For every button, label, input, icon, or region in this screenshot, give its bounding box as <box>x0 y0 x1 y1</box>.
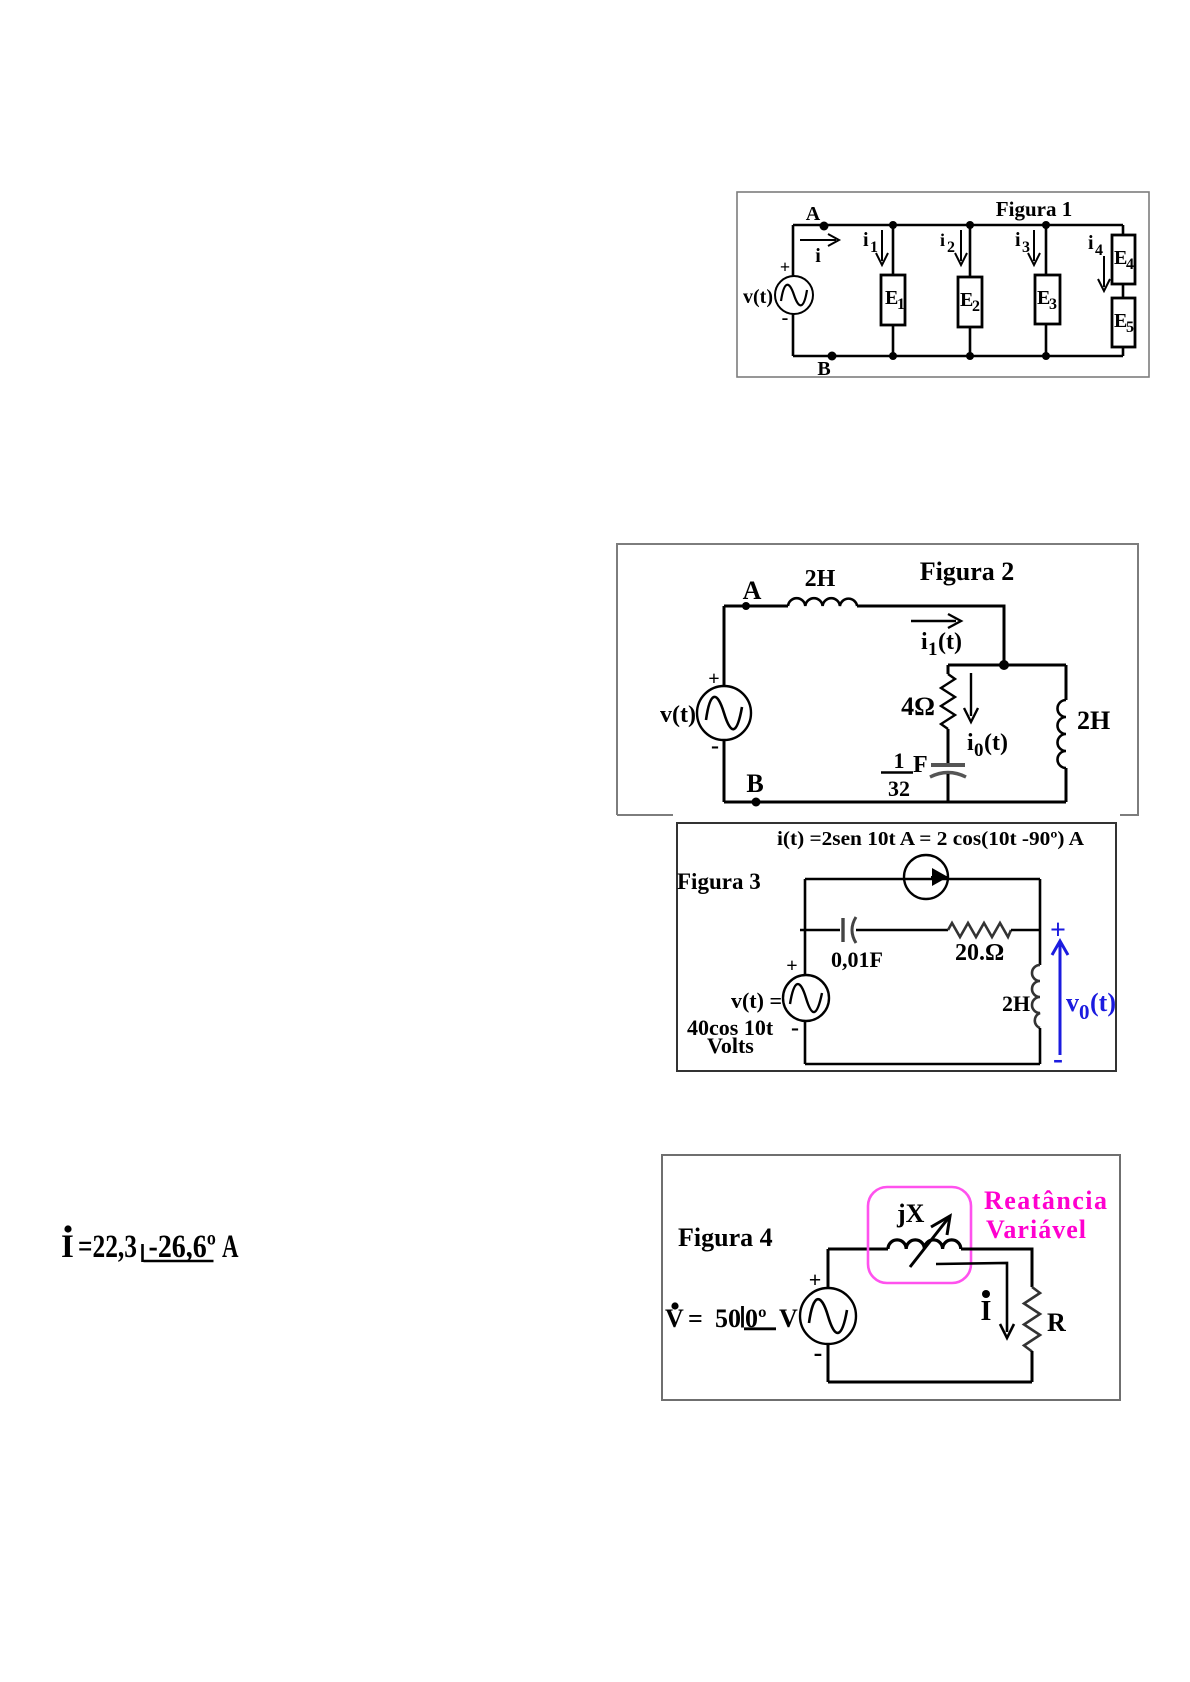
svg-text:2: 2 <box>972 298 980 315</box>
node branch1 bottom <box>889 352 897 360</box>
svg-text:Figura 4: Figura 4 <box>678 1223 773 1252</box>
label Volts <box>707 1033 754 1058</box>
figure 4 frame <box>662 1155 1120 1400</box>
title Figura 1 <box>996 197 1072 221</box>
svg-text:-: - <box>1053 1042 1063 1072</box>
svg-text:(t): (t) <box>938 629 962 655</box>
source V <box>800 1288 856 1344</box>
wire right vertical upper <box>1039 879 1042 965</box>
svg-text:i: i <box>1015 229 1021 251</box>
arrow i4 <box>1088 232 1110 291</box>
label v(t) <box>660 702 696 728</box>
inductor jX <box>888 1199 961 1249</box>
label + <box>780 257 790 277</box>
wire right sub-branch lower <box>1065 768 1068 802</box>
svg-text:3: 3 <box>1022 239 1030 256</box>
title Figura 2 <box>920 557 1015 586</box>
wire top left <box>828 1248 888 1251</box>
label + <box>786 955 797 977</box>
title i(t) equation <box>777 828 1085 850</box>
node branch3 top <box>1042 221 1050 229</box>
label Reatancia Variavel <box>984 1186 1107 1244</box>
wire left vertical <box>792 225 795 356</box>
figure 3 frame <box>677 823 1116 1071</box>
svg-text:A: A <box>222 1229 239 1265</box>
node B <box>817 352 836 381</box>
wire top rail <box>805 878 1040 881</box>
wire left vertical <box>804 879 807 1064</box>
svg-text:(t): (t) <box>984 730 1008 756</box>
label I dot <box>981 1290 992 1327</box>
resistor E2 <box>958 277 982 327</box>
label - <box>711 733 719 759</box>
wire right vertical lower <box>1039 1028 1042 1064</box>
node branch3 bottom <box>1042 352 1050 360</box>
svg-text:i: i <box>967 730 974 756</box>
svg-text:A: A <box>806 203 821 225</box>
wire middle center segment <box>856 929 948 932</box>
source v(t) <box>697 686 751 740</box>
inductor 2H right <box>1058 700 1111 768</box>
wire branch3 vertical <box>1045 225 1048 356</box>
svg-text:+: + <box>780 257 790 277</box>
wire bottom rail <box>724 801 1066 804</box>
svg-text:0: 0 <box>974 740 984 761</box>
svg-text:-: - <box>814 1338 823 1367</box>
svg-text:=: = <box>688 1304 703 1333</box>
svg-text:F: F <box>913 752 928 778</box>
node A <box>742 576 762 610</box>
arrow I current <box>936 1263 1014 1338</box>
wire capacitor to bottom <box>947 774 950 802</box>
arrow i1 <box>863 229 888 265</box>
label 40cos 10t <box>687 1015 774 1040</box>
svg-text:+: + <box>809 1267 822 1292</box>
wire branch1 vertical <box>892 225 895 356</box>
svg-text:+: + <box>1050 915 1066 946</box>
capacitor 1/32 F <box>881 748 966 801</box>
svg-text:20.Ω: 20.Ω <box>955 940 1004 966</box>
label V = 50|0 V <box>665 1302 798 1333</box>
wire branch4 vertical <box>1122 225 1125 356</box>
magenta box <box>868 1187 971 1283</box>
svg-text:4: 4 <box>1095 242 1103 259</box>
title Figura 4 <box>678 1223 773 1252</box>
svg-text:i: i <box>940 230 945 250</box>
label - blue <box>1053 1042 1063 1075</box>
svg-text:Variável: Variável <box>986 1215 1086 1244</box>
wire left sub-branch upper <box>947 665 950 674</box>
wire middle right segment <box>1011 929 1040 932</box>
svg-text:2: 2 <box>947 239 955 256</box>
svg-text:Figura 1: Figura 1 <box>996 197 1072 221</box>
node branch1 top <box>889 221 897 229</box>
svg-text:Figura 3: Figura 3 <box>677 869 761 894</box>
svg-text:V: V <box>779 1304 798 1333</box>
svg-text:1: 1 <box>897 296 905 313</box>
wire bottom rail <box>805 1063 1040 1066</box>
svg-text:-: - <box>711 733 719 759</box>
wire top AB rail <box>793 224 1123 227</box>
label v0(t) blue <box>1066 988 1116 1024</box>
resistor E5 <box>1112 298 1135 347</box>
wire left vertical <box>827 1249 830 1382</box>
svg-text:0º: 0º <box>745 1304 767 1333</box>
arrow i3 <box>1015 229 1040 265</box>
svg-text:v(t): v(t) <box>660 702 696 728</box>
arrow i0(t) <box>964 673 1008 761</box>
svg-text:1: 1 <box>894 748 905 773</box>
arrow i1(t) <box>911 614 962 660</box>
node branch2 bottom <box>966 352 974 360</box>
svg-text:2H: 2H <box>805 566 836 592</box>
label v(t) = <box>731 988 782 1013</box>
label - <box>782 307 789 329</box>
wire top left <box>724 605 788 608</box>
arrow i <box>800 234 839 267</box>
node middle junction <box>999 660 1009 670</box>
svg-text:-: - <box>782 307 789 329</box>
arrow variable reactance <box>910 1216 950 1267</box>
figure 1 frame <box>737 192 1149 377</box>
arrow i2 <box>940 230 967 265</box>
svg-text:2H: 2H <box>1077 706 1110 735</box>
svg-text:I: I <box>61 1229 74 1265</box>
svg-text:4: 4 <box>1126 256 1134 273</box>
node B <box>746 769 763 807</box>
label + <box>708 668 719 690</box>
svg-text:Figura 2: Figura 2 <box>920 557 1015 586</box>
svg-text:2H: 2H <box>1002 991 1030 1016</box>
svg-text:i: i <box>815 245 821 267</box>
svg-text:I: I <box>981 1296 992 1327</box>
svg-text:32: 32 <box>888 776 910 801</box>
svg-text:-26,6º: -26,6º <box>149 1229 217 1265</box>
svg-text:v(t): v(t) <box>743 286 773 308</box>
svg-text:Reatância: Reatância <box>984 1186 1107 1215</box>
svg-text:0,01F: 0,01F <box>831 947 883 972</box>
svg-text:B: B <box>746 769 763 798</box>
capacitor 0,01F <box>831 917 883 972</box>
svg-text:i: i <box>1088 232 1094 254</box>
svg-text:B: B <box>817 358 830 378</box>
label - <box>814 1338 823 1367</box>
arrow v0(t) blue <box>1052 941 1068 1055</box>
svg-text:1: 1 <box>870 239 878 256</box>
svg-text:V: V <box>665 1304 684 1333</box>
svg-text:-: - <box>791 1015 799 1041</box>
wire right sub-branch upper <box>1065 665 1068 700</box>
wire middle left segment <box>800 929 840 932</box>
svg-text:A: A <box>743 576 762 605</box>
svg-text:v: v <box>1066 988 1079 1017</box>
svg-text:R: R <box>1047 1308 1066 1337</box>
label - <box>791 1015 799 1041</box>
wire top right <box>961 1249 1032 1287</box>
resistor E4 <box>1112 235 1135 284</box>
current source i(t) <box>904 855 948 899</box>
svg-text:i(t) =2sen 10t A = 2 cos(10t -: i(t) =2sen 10t A = 2 cos(10t -90º) A <box>777 828 1085 850</box>
wire top right <box>857 606 1004 665</box>
svg-text:5: 5 <box>1126 319 1134 336</box>
svg-text:jX: jX <box>896 1199 925 1228</box>
wire middle horizontal <box>948 664 1066 667</box>
svg-text:3: 3 <box>1049 296 1057 313</box>
svg-text:0: 0 <box>1079 1000 1090 1024</box>
source v(t) <box>775 276 813 314</box>
wire branch2 vertical <box>969 225 972 356</box>
svg-text:i: i <box>863 229 869 251</box>
wire resistor to capacitor <box>947 729 950 765</box>
wire right vertical lower <box>1031 1351 1034 1382</box>
label v(t) <box>743 286 773 308</box>
resistor E3 <box>1035 275 1060 324</box>
resistor R <box>1024 1287 1066 1352</box>
source v(t) <box>783 975 829 1021</box>
wire bottom rail <box>793 355 1123 358</box>
svg-text:i: i <box>921 629 928 655</box>
node A <box>806 203 829 231</box>
answer text I = 22,3 angle -26,6 A <box>40 1210 300 1280</box>
svg-text:v(t) =: v(t) = <box>731 988 782 1013</box>
figure 2 frame <box>617 544 1138 815</box>
svg-text:=22,3: =22,3 <box>78 1229 137 1265</box>
label + <box>809 1267 822 1292</box>
inductor 2H top <box>788 566 857 606</box>
wire bottom rail <box>828 1381 1032 1384</box>
svg-text:+: + <box>786 955 797 977</box>
inductor 2H <box>1002 965 1040 1028</box>
resistor 20ohm <box>948 923 1011 966</box>
svg-text:50: 50 <box>715 1304 741 1333</box>
svg-text:+: + <box>708 668 719 690</box>
resistor E1 <box>881 275 905 325</box>
resistor 4ohm <box>901 674 955 729</box>
svg-text:(t): (t) <box>1090 988 1116 1017</box>
label Figura 3 <box>677 869 761 894</box>
svg-text:4Ω: 4Ω <box>901 692 935 721</box>
node branch2 top <box>966 221 974 229</box>
svg-text:1: 1 <box>928 639 938 660</box>
label + blue <box>1050 915 1066 946</box>
svg-text:Volts: Volts <box>707 1033 754 1058</box>
wire left vertical <box>723 606 726 802</box>
